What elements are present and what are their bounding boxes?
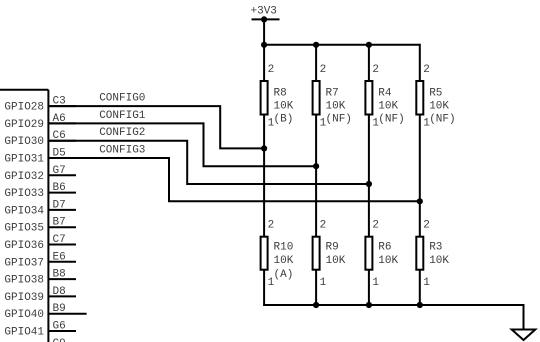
svg-text:G6: G6 [53,321,66,333]
svg-text:C7: C7 [53,234,66,246]
resistor R4 body [365,81,372,115]
svg-text:CONFIG0: CONFIG0 [99,93,145,105]
junction dot rail R4 [366,42,372,48]
svg-text:2: 2 [423,64,430,76]
junction dot +3V3 [261,16,267,22]
svg-text:R8: R8 [274,87,287,99]
svg-text:B6: B6 [53,182,66,194]
svg-text:CONFIG3: CONFIG3 [99,144,145,156]
svg-text:C6: C6 [53,130,66,142]
svg-text:10K: 10K [378,255,398,267]
svg-text:(NF): (NF) [378,114,404,126]
svg-text:2: 2 [372,219,379,231]
svg-text:R4: R4 [378,87,392,99]
svg-text:(NF): (NF) [326,114,352,126]
pin GPIO33 stub [48,192,76,194]
svg-text:B9: B9 [53,303,66,315]
svg-text:(B): (B) [274,114,294,126]
svg-text:GPIO34: GPIO34 [4,205,44,217]
svg-text:GPIO39: GPIO39 [4,292,44,304]
junction dot rail R7 [313,42,319,48]
svg-text:2: 2 [268,219,275,231]
svg-text:GPIO40: GPIO40 [4,309,44,321]
pin GPIO29 stub [48,122,76,124]
resistor R5 body [416,81,423,115]
junction dot CONFIG2 node [366,181,372,187]
svg-text:2: 2 [320,64,327,76]
wire column R7 [315,44,317,305]
pin GPIO40 stub [48,313,87,315]
resistor R9 body [313,237,320,270]
pin GPIO34 stub [48,209,76,211]
svg-text:B7: B7 [53,217,66,229]
wire CONFIG0 [48,106,265,148]
pin GPIO41 stub [48,330,76,332]
svg-text:C3: C3 [53,96,66,108]
resistor R8 body [261,81,268,115]
svg-text:GPIO35: GPIO35 [4,223,44,235]
svg-text:10K: 10K [274,101,294,113]
wire CONFIG2 [48,141,369,184]
svg-text:A6: A6 [53,113,66,125]
svg-text:10K: 10K [429,101,449,113]
svg-text:CONFIG1: CONFIG1 [99,110,146,122]
junction dot CONFIG3 node [417,198,423,204]
svg-text:1: 1 [372,277,379,289]
wire column R5 [419,44,421,305]
svg-text:R3: R3 [429,242,442,254]
power +3V3 symbol bar [252,18,280,20]
junction dot rail R8 [261,42,267,48]
svg-text:GPIO38: GPIO38 [4,275,44,287]
wire CONFIG3 [48,158,420,201]
wire bottom rail GND [264,304,523,330]
svg-text:GPIO41: GPIO41 [4,327,44,339]
svg-text:10K: 10K [326,101,346,113]
svg-text:1: 1 [320,277,327,289]
svg-text:2: 2 [372,64,379,76]
svg-text:2: 2 [423,219,430,231]
junction dot bottom rail R3 [417,302,423,308]
svg-text:D7: D7 [53,199,66,211]
pin GPIO28 stub [48,105,76,107]
wire top rail +3V3 [263,44,420,46]
resistor R6 body [365,237,372,270]
svg-text:R7: R7 [326,87,339,99]
resistor R3 body [416,237,423,270]
pin GPIO31 stub [48,157,76,159]
svg-text:E6: E6 [53,251,66,263]
svg-text:10K: 10K [326,255,346,267]
svg-text:D8: D8 [53,286,66,298]
svg-text:GPIO31: GPIO31 [4,154,44,166]
svg-text:10K: 10K [274,255,294,267]
pin GPIO30 stub [48,140,76,142]
svg-text:10K: 10K [429,255,449,267]
pin GPIO35 stub [48,226,76,228]
wire column R4 [368,44,370,305]
svg-text:GPIO36: GPIO36 [4,240,44,252]
svg-text:10K: 10K [378,101,398,113]
ground symbol [512,330,536,341]
junction dot bottom rail R6 [366,302,372,308]
pin GPIO38 stub [48,278,76,280]
svg-text:R6: R6 [378,242,391,254]
pin GPIO36 stub [48,244,76,246]
svg-text:R9: R9 [326,242,339,254]
svg-text:(A): (A) [274,269,294,281]
svg-text:R5: R5 [429,87,442,99]
svg-text:2: 2 [320,219,327,231]
resistor R7 body [313,81,320,115]
junction dot bottom rail R9 [313,302,319,308]
junction dot CONFIG0 node [261,145,267,151]
svg-text:GPIO28: GPIO28 [4,102,44,114]
wire CONFIG1 [48,123,317,166]
svg-text:GPIO32: GPIO32 [4,171,44,183]
svg-text:D5: D5 [53,148,66,160]
svg-text:G7: G7 [53,165,66,177]
pin GPIO39 stub [48,295,76,297]
svg-text:GPIO30: GPIO30 [4,136,44,148]
svg-text:GPIO29: GPIO29 [4,119,44,131]
svg-text:2: 2 [268,64,275,76]
svg-text:+3V3: +3V3 [251,6,277,18]
svg-text:R10: R10 [274,242,294,254]
svg-text:C9: C9 [53,338,66,342]
wire column R8 [263,44,265,305]
svg-text:B8: B8 [53,269,66,281]
pin GPIO37 stub [48,261,76,263]
svg-text:CONFIG2: CONFIG2 [99,127,145,139]
svg-text:GPIO37: GPIO37 [4,257,44,269]
wire +3V3 to rail [263,19,265,44]
resistor R10 body [261,237,268,270]
junction dot CONFIG1 node [313,163,319,169]
svg-text:1: 1 [423,277,430,289]
connector box outline [0,90,48,342]
svg-text:GPIO33: GPIO33 [4,188,44,200]
pin GPIO32 stub [48,174,76,176]
svg-text:(NF): (NF) [429,114,455,126]
